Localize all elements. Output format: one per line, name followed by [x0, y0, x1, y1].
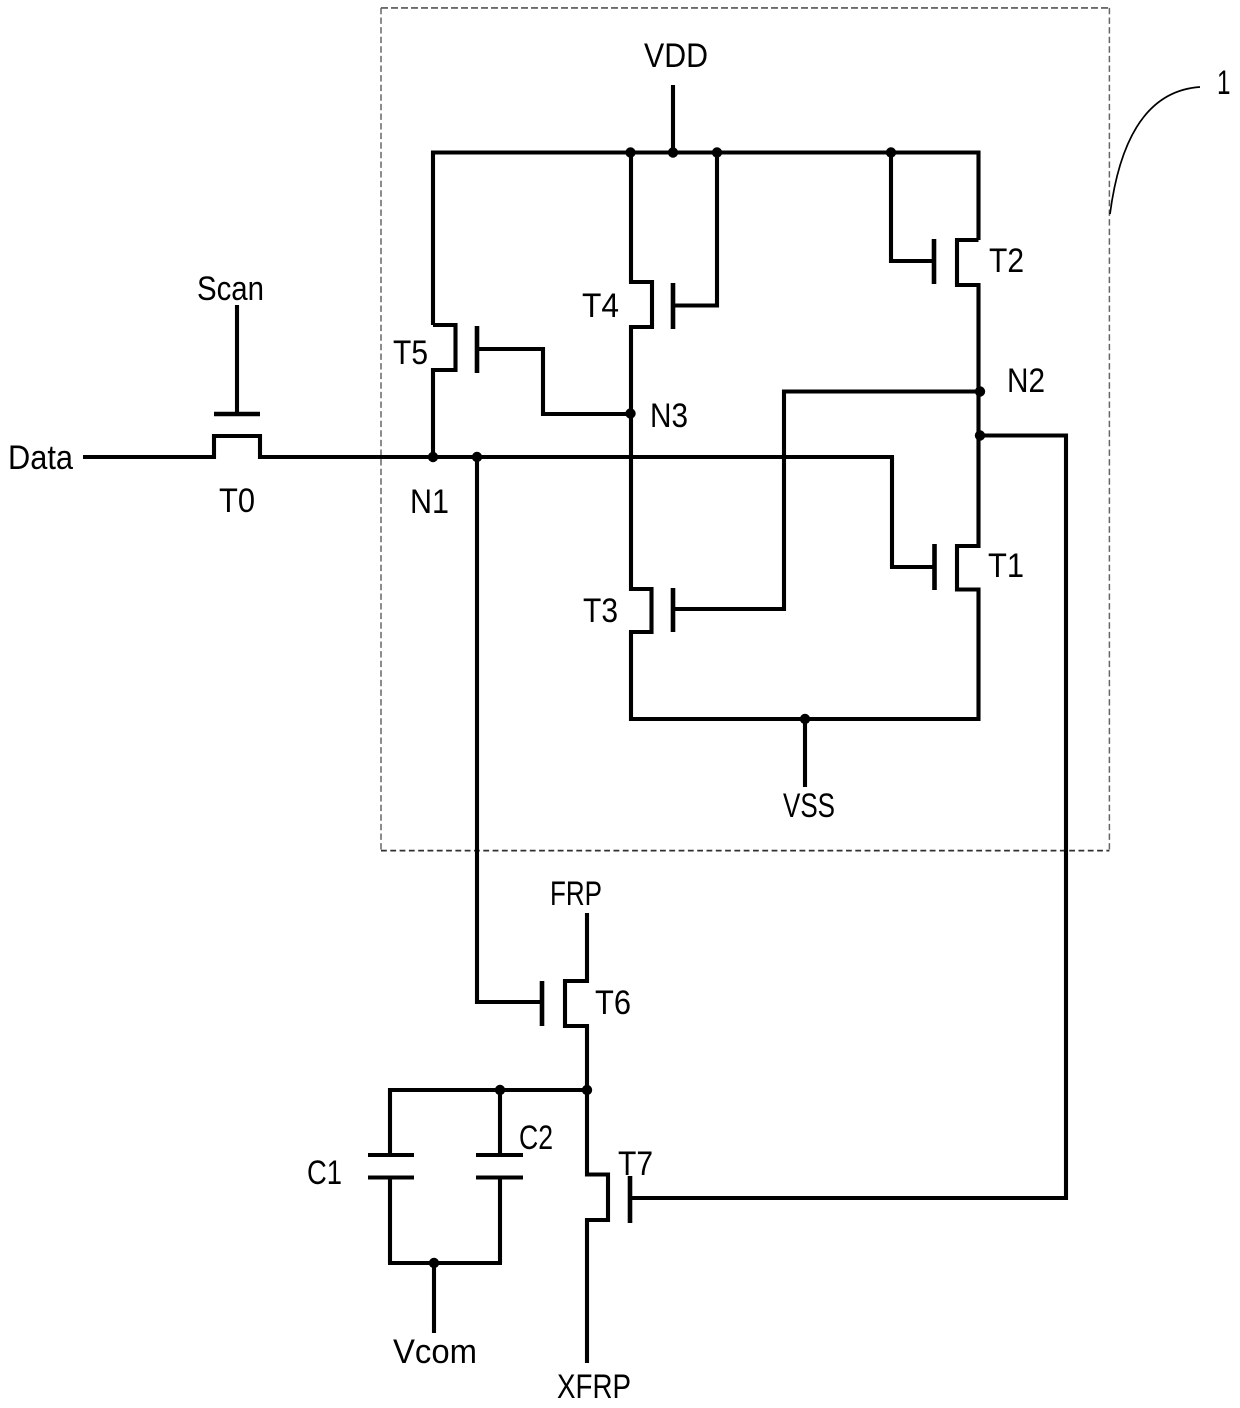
transistor T2 gate bar: [932, 239, 937, 284]
svg-text:Scan: Scan: [197, 270, 264, 308]
svg-text:FRP: FRP: [550, 875, 602, 913]
capacitor C2 bottom lead: [498, 1178, 502, 1264]
junction dot T4 drain at VDD rail: [625, 147, 635, 157]
wire node N2 to T3 gate: [673, 392, 980, 610]
svg-text:C1: C1: [307, 1154, 342, 1192]
svg-text:T1: T1: [988, 547, 1024, 585]
transistor T4 gate bar: [671, 283, 676, 329]
svg-text:N1: N1: [410, 483, 449, 521]
svg-text:T0: T0: [219, 482, 255, 520]
svg-text:N3: N3: [650, 397, 688, 435]
transistor T4 body chained to transistor T3 body (middle branch): [631, 153, 652, 722]
dashed boundary box of pixel circuit 1 (left edge): [380, 8, 382, 851]
dashed boundary box of pixel circuit 1 (bottom edge): [381, 850, 1109, 852]
svg-text:T2: T2: [989, 242, 1024, 280]
svg-text:T7: T7: [618, 1145, 653, 1183]
transistor T7 gate bar: [628, 1176, 633, 1223]
junction dot T6 source: [582, 1085, 592, 1095]
node N2 junction dot: [975, 386, 985, 396]
Vcom lead: [432, 1263, 436, 1333]
junction dot T2 gate branch at rail: [886, 147, 896, 157]
svg-text:VDD: VDD: [644, 37, 708, 75]
transistor T5 gate bar: [475, 326, 480, 373]
dashed boundary box of pixel circuit 1 (top edge): [381, 7, 1109, 9]
svg-text:T6: T6: [595, 984, 631, 1022]
junction dot N2 lower branch: [975, 430, 985, 440]
wire Scan lead to T0 gate: [235, 305, 239, 414]
capacitor C2 top lead: [498, 1088, 502, 1155]
junction dot Vcom at storage bottom: [429, 1258, 439, 1268]
wire node N1 drop to T6 gate: [477, 457, 542, 1002]
capacitor C1 top plate: [368, 1153, 414, 1157]
svg-text:Data: Data: [8, 439, 73, 477]
node N1 junction dot: [472, 452, 482, 462]
svg-text:Vcom: Vcom: [393, 1333, 477, 1371]
transistor T0 gate bar: [214, 412, 260, 417]
VDD supply lead: [671, 85, 675, 154]
wire VSS rail: [629, 717, 981, 721]
svg-text:1: 1: [1217, 64, 1231, 102]
node N3 junction dot: [625, 408, 635, 418]
svg-text:T3: T3: [583, 592, 618, 630]
junction dot T4 gate branch at rail: [712, 147, 722, 157]
junction dot VDD lead at rail: [668, 147, 678, 157]
capacitor C1 top lead: [388, 1088, 392, 1155]
wire storage node bottom: [388, 1261, 502, 1265]
capacitor C1 bottom plate: [368, 1175, 414, 1179]
junction dot C2 top: [495, 1085, 505, 1095]
FRP lead and transistor T6 body: [565, 913, 587, 1092]
svg-text:C2: C2: [519, 1119, 553, 1157]
VSS supply lead: [803, 719, 807, 787]
transistor T3 gate bar: [671, 588, 676, 632]
capacitor C2 top plate: [476, 1153, 523, 1157]
junction dot T5 source at N1 wire: [428, 452, 438, 462]
wire storage node top: [390, 1088, 587, 1092]
junction dot VSS lead at rail: [800, 714, 810, 724]
dashed boundary box of pixel circuit 1 (right edge): [1108, 8, 1110, 851]
wire T4 gate to VDD rail: [673, 153, 717, 306]
capacitor C2 bottom plate: [476, 1175, 523, 1179]
transistor T6 gate bar: [540, 981, 545, 1026]
transistor T2 body chained to transistor T1 body (right branch): [957, 240, 979, 721]
wire T2 gate to VDD rail: [891, 153, 934, 262]
wire node N2 lower branch to T7 gate: [632, 436, 1066, 1199]
svg-text:T4: T4: [582, 287, 619, 325]
leader curve to reference label 1: [1110, 87, 1200, 214]
svg-text:T5: T5: [393, 334, 428, 372]
transistor T5 body (drain step, channel, source step, source lead to N1): [433, 325, 456, 459]
transistor T1 gate bar: [932, 544, 937, 590]
transistor T7 body with XFRP lead: [587, 1090, 608, 1363]
svg-text:VSS: VSS: [783, 787, 835, 825]
capacitor C1 bottom lead: [388, 1178, 392, 1264]
svg-text:XFRP: XFRP: [557, 1368, 631, 1406]
wire Data line through T0 channel to node N1 and T1 gate: [83, 436, 935, 567]
wire VDD rail with drops to T5 drain and T2 drain: [433, 153, 979, 326]
svg-text:N2: N2: [1007, 362, 1045, 400]
wire T5 gate to node N3: [477, 349, 632, 414]
